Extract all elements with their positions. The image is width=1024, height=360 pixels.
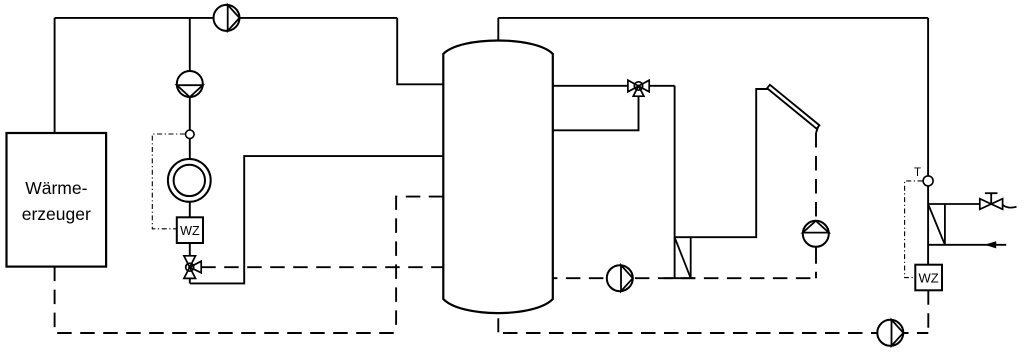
wire dash-dot control left <box>152 134 185 229</box>
wire dashed valve return <box>201 266 443 268</box>
wire dashed solar return main <box>553 277 816 279</box>
wire dashed boiler return <box>55 197 444 333</box>
svg-text:Wärme-: Wärme- <box>25 178 87 198</box>
svg-text:T: T <box>914 167 921 179</box>
arrow inflow <box>985 241 997 248</box>
heat meter WZ left <box>177 217 203 243</box>
wire top-left supply header <box>55 17 398 19</box>
wire exchanger drop vertical <box>674 86 676 278</box>
volume meter <box>168 159 211 202</box>
pump P3 solar <box>803 221 829 247</box>
svg-text:WZ: WZ <box>180 224 200 238</box>
heat exchanger HX2 <box>664 237 696 278</box>
wire arrow feed line <box>928 244 1006 246</box>
wire meter branch vertical <box>189 18 191 284</box>
wire right riser <box>927 18 929 290</box>
heat meter WZ right <box>915 265 942 291</box>
heat exchanger HX1 <box>928 204 980 245</box>
wire valve bypass to tank <box>553 96 639 130</box>
wire tank to 3-way valve <box>553 85 628 87</box>
buffer tank <box>443 40 553 313</box>
wire tank top stub <box>497 18 499 40</box>
sensor node T <box>923 176 933 186</box>
wire dash-dot control right <box>905 181 923 278</box>
wire header drop to tank <box>397 18 443 84</box>
solar collector <box>767 85 819 133</box>
wire dashed bottom return <box>498 332 928 334</box>
svg-text:erzeuger: erzeuger <box>22 204 91 224</box>
wire dashed riser to WZ <box>927 290 929 333</box>
wire dashed below solar pump <box>815 247 817 278</box>
wire boiler riser <box>54 18 56 133</box>
3-way valve V2 <box>628 80 649 96</box>
sensor node left <box>186 130 195 139</box>
svg-text:WZ: WZ <box>918 271 938 286</box>
heat generator box <box>7 133 107 267</box>
pump P5 <box>877 320 903 346</box>
wire dashed tank bottom stub <box>497 318 499 332</box>
valve V3 with handle <box>980 193 1017 209</box>
pump P1 <box>214 5 240 31</box>
wire top-right header <box>498 17 928 19</box>
3-way valve V1 <box>184 256 201 279</box>
wire valve return loop to tank <box>190 156 443 283</box>
pump P2 <box>177 71 203 97</box>
wire exchanger top to collector riser <box>675 89 769 237</box>
pump P4 <box>607 265 633 291</box>
wire 3-way valve to exchanger drop <box>649 85 674 87</box>
wire dashed collector down-pipe <box>815 133 817 221</box>
